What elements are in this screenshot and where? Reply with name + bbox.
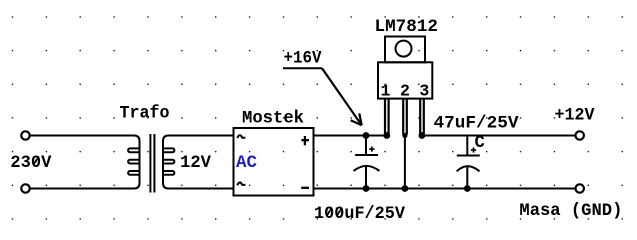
label C bbox=[475, 134, 485, 153]
capacitor C2 plus mark bbox=[471, 147, 476, 152]
label 230V bbox=[10, 154, 52, 173]
svg-text:C: C bbox=[475, 134, 485, 153]
svg-text:+16V: +16V bbox=[284, 49, 323, 68]
svg-text:LM7812: LM7812 bbox=[375, 18, 439, 37]
regulator U1 pin 3 bbox=[420, 99, 424, 135]
capacitor C1 plus mark bbox=[369, 147, 374, 152]
label +12V bbox=[555, 106, 596, 125]
regulator U1 LM7812 tab bbox=[385, 37, 425, 63]
svg-text:AC: AC bbox=[236, 154, 257, 173]
svg-text:+12V: +12V bbox=[555, 106, 596, 125]
capacitor C1 100uF positive plate and stem bbox=[355, 136, 378, 156]
junction node pin2 ground bbox=[402, 185, 409, 192]
slashed zeros overlay bbox=[34, 156, 342, 216]
label 12V bbox=[180, 154, 212, 173]
transformer T1 core bbox=[150, 134, 154, 193]
wire transformer secondary top to bridge bbox=[169, 135, 234, 137]
capacitor C2 47uF positive plate and stem bbox=[457, 136, 480, 156]
label AC bbox=[236, 154, 257, 173]
terminal +12V bbox=[576, 131, 584, 139]
svg-text:47uF/25V: 47uF/25V bbox=[434, 115, 520, 134]
wire bridge plus output to regulator pin 1 bbox=[314, 135, 387, 137]
capacitor C2 negative curved plate and stem bbox=[457, 166, 480, 188]
svg-text:2: 2 bbox=[400, 81, 410, 100]
regulator U1 pin 2 bbox=[403, 99, 407, 135]
bridge rectifier B1 body bbox=[234, 128, 314, 196]
wire 230V top to transformer bbox=[30, 135, 135, 137]
junction node regulator pin 3 bbox=[419, 132, 426, 139]
wire regulator pin 2 to ground rail bbox=[404, 135, 406, 189]
regulator pin number 1 bbox=[381, 81, 391, 100]
svg-text:Trafo: Trafo bbox=[120, 104, 170, 123]
svg-text:12V: 12V bbox=[180, 154, 212, 173]
label 47uF/25V bbox=[434, 115, 520, 134]
label +16V bbox=[284, 49, 323, 68]
wire 230V bottom to transformer bbox=[30, 188, 135, 190]
terminal 230V top bbox=[21, 131, 29, 139]
svg-text:3: 3 bbox=[419, 81, 429, 100]
svg-text:Masa (GND): Masa (GND) bbox=[519, 202, 622, 221]
label Trafo bbox=[120, 104, 170, 123]
junction node regulator pin 2 bbox=[402, 133, 407, 138]
transformer T1 primary winding bbox=[128, 136, 139, 189]
regulator pin number 2 bbox=[400, 81, 410, 100]
bridge rectifier AC symbol top bbox=[237, 135, 245, 138]
label Masa (GND) bbox=[519, 202, 622, 221]
bridge rectifier minus output mark bbox=[301, 187, 309, 189]
terminal 230V bottom bbox=[21, 184, 29, 192]
label 100uF/25V bbox=[314, 205, 406, 224]
junction node bridge output / C1 top bbox=[363, 132, 370, 139]
capacitor C1 negative curved plate and stem bbox=[354, 166, 380, 189]
wire bridge minus to ground rail bbox=[314, 188, 576, 190]
terminal Masa GND bbox=[576, 184, 584, 192]
junction node regulator pin 1 bbox=[383, 132, 390, 139]
node +16V arrow bbox=[283, 68, 362, 125]
wire transformer secondary bottom to bridge bbox=[169, 188, 234, 190]
bridge rectifier AC symbol bottom bbox=[237, 182, 245, 185]
label LM7812 bbox=[375, 18, 439, 37]
transformer T1 secondary winding bbox=[163, 136, 174, 189]
wire regulator pin 3 to +12V output bbox=[422, 135, 575, 137]
label Mostek bbox=[242, 109, 304, 128]
junction node C2 bottom ground bbox=[464, 185, 471, 192]
bridge rectifier plus output mark bbox=[301, 136, 309, 145]
svg-text:1: 1 bbox=[381, 81, 391, 100]
regulator U1 pin 1 bbox=[385, 99, 389, 135]
svg-text:Mostek: Mostek bbox=[242, 109, 304, 128]
junction node C1 bottom ground bbox=[363, 185, 370, 192]
svg-text:230V: 230V bbox=[10, 154, 52, 173]
regulator pin number 3 bbox=[419, 81, 429, 100]
regulator U1 LM7812 body bbox=[378, 62, 432, 98]
